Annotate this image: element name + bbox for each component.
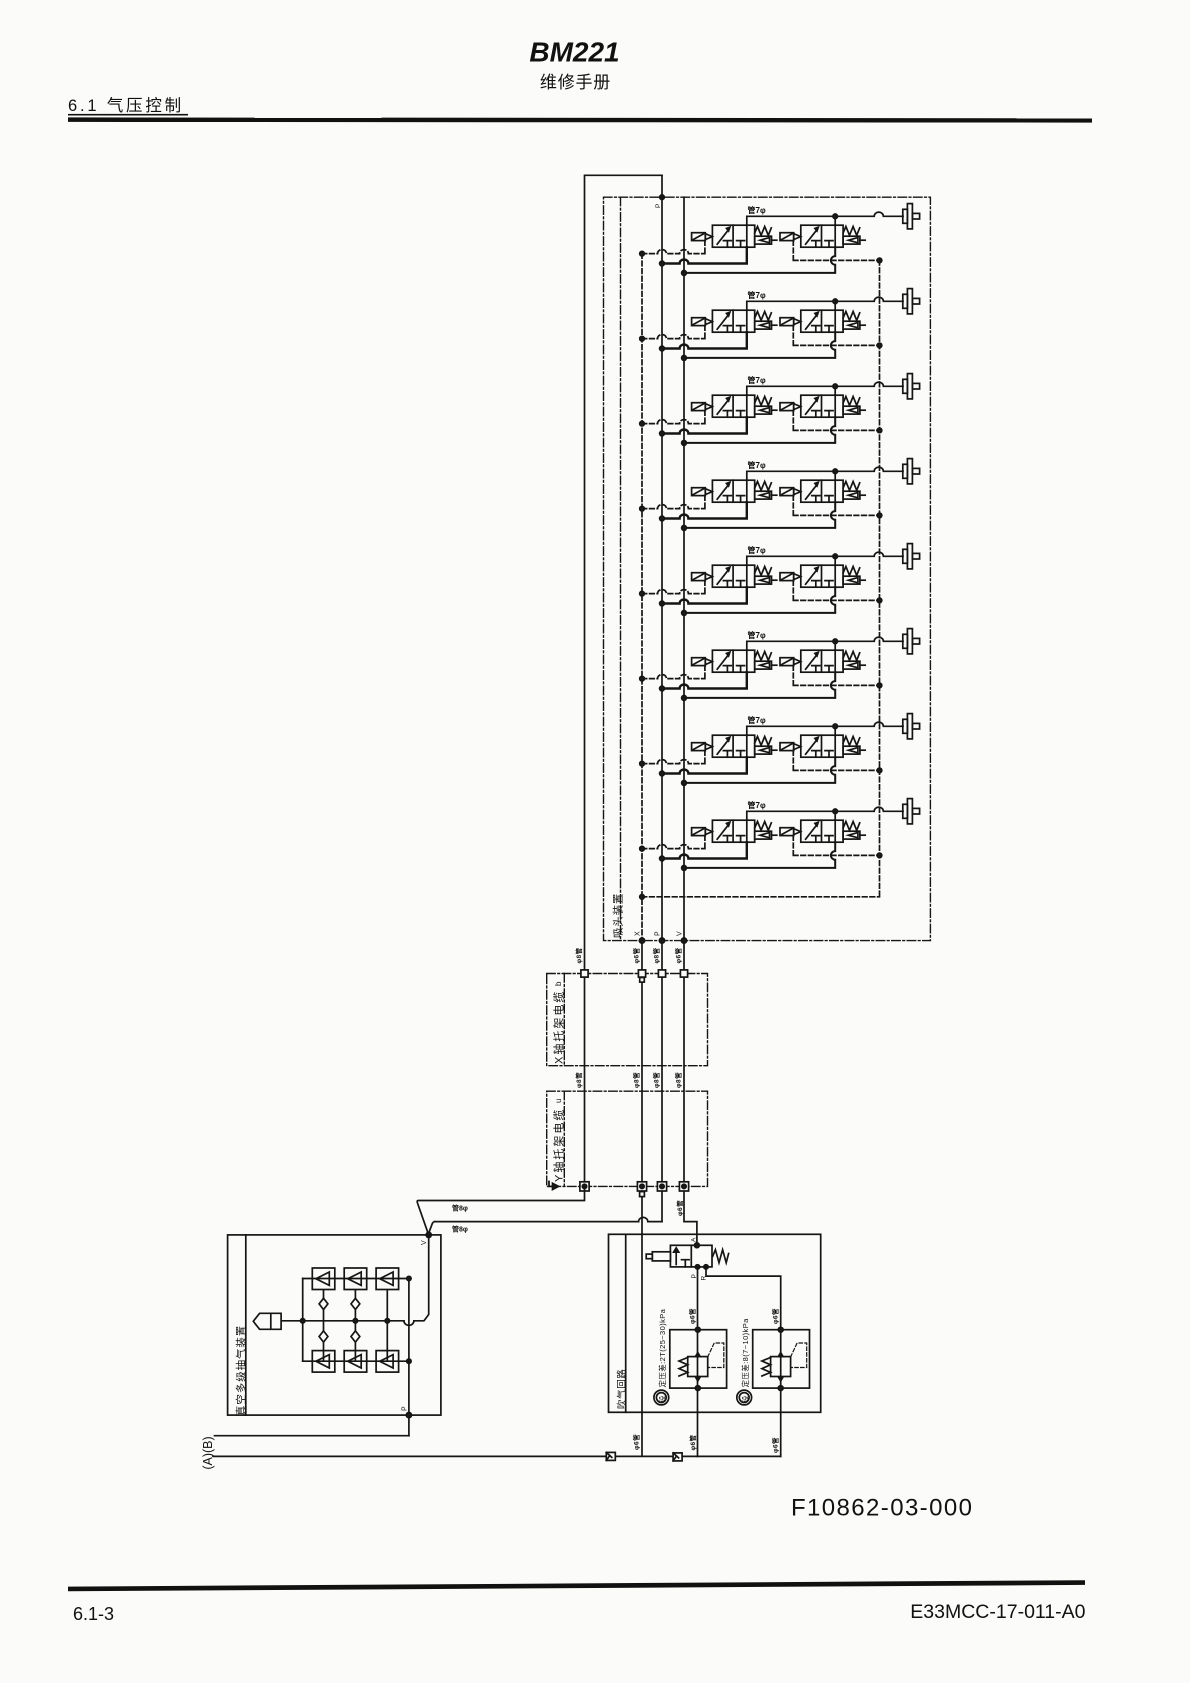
svg-text:b: b	[554, 981, 563, 986]
svg-text:定压差:2T(25~30)kPa: 定压差:2T(25~30)kPa	[657, 1308, 667, 1387]
svg-text:V: V	[421, 1240, 428, 1245]
svg-text:定压差:8(7~10)kPa: 定压差:8(7~10)kPa	[740, 1318, 750, 1388]
svg-text:6.1-3: 6.1-3	[73, 1604, 114, 1624]
svg-text:φ8管: φ8管	[574, 1072, 583, 1088]
svg-text:φ6管: φ6管	[675, 1200, 684, 1216]
svg-text:吸头装置: 吸头装置	[612, 893, 625, 938]
svg-text:BM221: BM221	[529, 37, 619, 68]
svg-text:维修手册: 维修手册	[540, 73, 611, 92]
svg-text:设: 设	[740, 1396, 749, 1403]
svg-text:φ8管: φ8管	[652, 947, 661, 963]
svg-text:φ8管: φ8管	[632, 1072, 641, 1088]
svg-text:u: u	[554, 1099, 563, 1103]
svg-text:真空多级抽气装置: 真空多级抽气装置	[235, 1325, 248, 1416]
svg-text:Y轴托架电缆: Y轴托架电缆	[552, 1108, 566, 1182]
svg-text:φ6管: φ6管	[632, 947, 641, 963]
svg-text:(A)(B): (A)(B)	[201, 1436, 215, 1469]
svg-text:V: V	[677, 931, 684, 936]
svg-text:E33MCC-17-011-A0: E33MCC-17-011-A0	[910, 1601, 1085, 1623]
svg-text:φ6管: φ6管	[771, 1437, 780, 1453]
svg-text:φ8管: φ8管	[652, 1072, 661, 1088]
svg-text:X轴托架电缆: X轴托架电缆	[552, 990, 566, 1064]
svg-text:P: P	[655, 204, 662, 208]
svg-text:φ6管: φ6管	[688, 1434, 697, 1450]
svg-text:A: A	[691, 1237, 698, 1242]
svg-text:φ6管: φ6管	[687, 1308, 696, 1324]
svg-text:φ6管: φ6管	[770, 1308, 779, 1324]
svg-text:管8φ: 管8φ	[452, 1204, 468, 1213]
svg-text:φ8管: φ8管	[674, 1072, 683, 1088]
svg-text:φ8管: φ8管	[574, 947, 583, 963]
svg-text:F10862-03-000: F10862-03-000	[791, 1495, 973, 1522]
svg-text:φ6管: φ6管	[674, 947, 683, 963]
svg-text:P: P	[402, 1406, 409, 1411]
svg-text:φ6管: φ6管	[632, 1434, 641, 1450]
svg-text:管8φ: 管8φ	[452, 1225, 468, 1234]
svg-text:吹气回路: 吹气回路	[616, 1369, 628, 1409]
svg-text:X: X	[635, 931, 642, 936]
svg-text:设: 设	[658, 1396, 667, 1403]
svg-text:P: P	[655, 931, 662, 936]
svg-text:6.1 气压控制: 6.1 气压控制	[68, 96, 184, 115]
